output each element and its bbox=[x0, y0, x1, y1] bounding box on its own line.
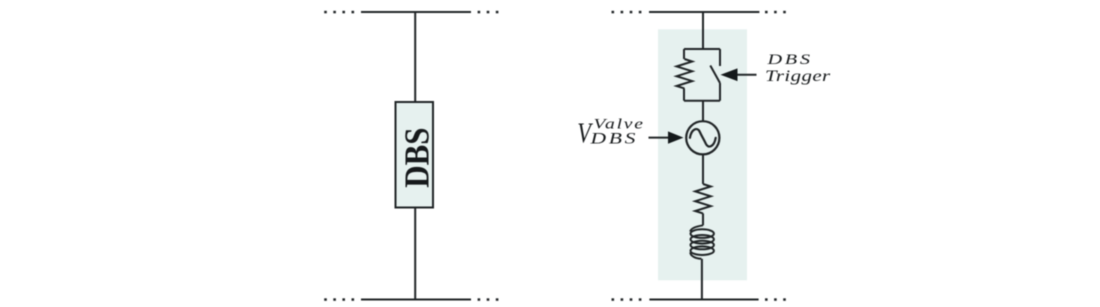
left circuit: top bus dots (right) bbox=[478, 11, 499, 14]
wire: inductor to bottom bus bbox=[701, 259, 703, 300]
left circuit: bottom bus wire bbox=[361, 299, 471, 301]
wire: source to resistor bbox=[702, 154, 704, 184]
wire: DBS box to bottom bus bbox=[414, 208, 416, 300]
svg-text:DBS: DBS bbox=[766, 50, 812, 67]
wire: stem to source bbox=[702, 101, 704, 121]
wire: left branch upper lead bbox=[683, 49, 685, 59]
right circuit: bottom bus dots (right) bbox=[765, 298, 786, 301]
wire: parallel block top bar bbox=[684, 48, 720, 50]
wire: right branch upper lead bbox=[719, 49, 721, 66]
DBS subsystem shaded region bbox=[658, 29, 747, 280]
wire: top stem to DBS box bbox=[414, 12, 416, 102]
inductor L1 (coil) bbox=[690, 225, 714, 258]
right circuit: top bus dots (right) bbox=[765, 11, 786, 14]
arrow: V_DBS source pointer bbox=[649, 137, 669, 139]
wire: resistor to inductor bbox=[702, 213, 704, 225]
wire: parallel block bottom bar bbox=[684, 100, 720, 102]
svg-text:Trigger: Trigger bbox=[765, 68, 831, 85]
wire: left branch lower lead bbox=[683, 88, 685, 100]
svg-text:DBS: DBS bbox=[589, 130, 638, 148]
svg-text:DBS: DBS bbox=[399, 128, 437, 188]
DBS block bbox=[396, 102, 434, 208]
resistor R1 (trigger branch) bbox=[677, 59, 693, 88]
switch lever (normally open) bbox=[710, 66, 720, 84]
left circuit: bottom bus dots (left) bbox=[324, 298, 354, 301]
left circuit: bottom bus dots (right) bbox=[478, 298, 499, 301]
right circuit: bottom bus dots (left) bbox=[612, 298, 642, 301]
left circuit: top bus dots (left) bbox=[324, 11, 354, 14]
arrow: DBS Trigger pointer bbox=[737, 74, 757, 76]
resistor R2 bbox=[695, 184, 711, 213]
AC source U1 circle bbox=[686, 121, 719, 154]
right circuit: top bus dots (left) bbox=[612, 11, 642, 14]
AC source sine wave bbox=[690, 129, 716, 146]
wire: right branch lower lead bbox=[719, 83, 721, 101]
left circuit: top bus wire bbox=[361, 11, 471, 13]
wire: top stem into parallel block bbox=[702, 12, 704, 49]
right circuit: top bus wire bbox=[649, 11, 759, 13]
right circuit: bottom bus wire bbox=[649, 299, 758, 301]
